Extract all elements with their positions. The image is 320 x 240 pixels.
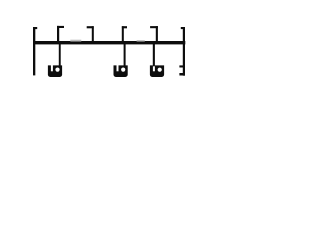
gray ghost segment on rail between T3 and T4 bbox=[137, 40, 145, 42]
wire: tap T3 lower stem bbox=[124, 44, 126, 67]
hook H2 eye (white) bbox=[121, 68, 125, 72]
hook H1 eye (white) bbox=[55, 68, 59, 72]
wire: tap T1 lower stem bbox=[59, 44, 61, 67]
hook H1: hanger body with slot and eye bbox=[48, 65, 62, 77]
gray ghost segment on rail between T1 and T2 bbox=[70, 40, 81, 42]
node A: left end post (vertical drop with top serif) bbox=[33, 27, 37, 75]
wire: main horizontal rail/bus line bbox=[33, 41, 185, 44]
wire: tap T3 upper stem with corner bracket (Γ) bbox=[122, 26, 127, 41]
hook H3 eye (white) bbox=[158, 68, 162, 72]
wire: tap T2 stem with corner bracket (mirrored ¬) bbox=[87, 26, 94, 41]
hook H3: hanger body with slot and eye bbox=[150, 65, 164, 77]
wire: tap T4 lower stem hanging into hook H3 slot bbox=[153, 44, 155, 67]
node B: right end post (vertical drop with top serif) bbox=[181, 27, 185, 76]
wire: tap T1 upper stem with corner bracket (Γ) bbox=[57, 26, 64, 42]
hook H2: hanger body with slot and eye bbox=[113, 65, 127, 77]
bracket: open-left clamp (Ǝ) at bottom of right end post bbox=[179, 65, 183, 75]
wire: tap T4 upper stem with corner bracket (mirrored ¬) bbox=[150, 26, 158, 41]
